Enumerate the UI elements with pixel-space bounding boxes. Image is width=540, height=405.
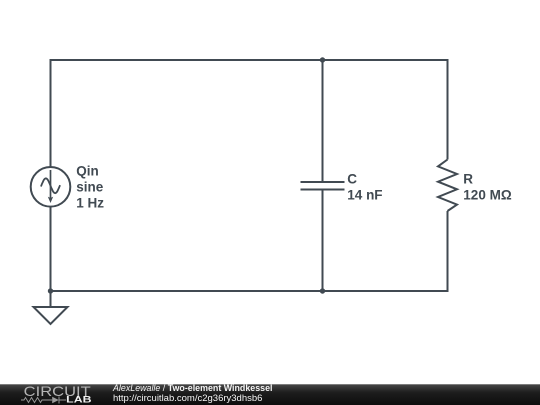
wire bottom rail (51, 207, 448, 291)
ground (34, 291, 68, 324)
node junction dot bottom (cap / bottom rail) (320, 288, 325, 293)
wire capacitor bottom lead (322, 190, 324, 292)
capacitor C (301, 182, 345, 190)
svg-text:Qin: Qin (76, 164, 99, 179)
resistor R (438, 160, 457, 212)
current source Qin (sine, 1 Hz) (31, 167, 71, 207)
svg-text:14 nF: 14 nF (347, 188, 382, 203)
label R 120 MOhm (463, 172, 512, 203)
svg-text:1 Hz: 1 Hz (76, 196, 104, 211)
svg-text:C: C (347, 172, 357, 187)
svg-text:http://circuitlab.com/c2g36ry3: http://circuitlab.com/c2g36ry3dhsb6 (113, 393, 262, 404)
svg-text:sine: sine (76, 180, 104, 195)
label C 14 nF (347, 172, 382, 203)
CircuitLab logo: resistor+diode line (21, 397, 66, 404)
wire capacitor top lead (322, 60, 324, 182)
footer bar (0, 384, 540, 405)
node junction dot top (cap / top rail) (320, 57, 325, 62)
label Qin sine 1 Hz (76, 164, 104, 211)
wire top rail: node from source top to capacitor to resistor (51, 60, 448, 167)
svg-text:120 MΩ: 120 MΩ (463, 188, 512, 203)
svg-text:R: R (463, 172, 473, 187)
node junction dot ground (source / bottom rail) (48, 288, 53, 293)
svg-text:LAB: LAB (66, 395, 91, 405)
